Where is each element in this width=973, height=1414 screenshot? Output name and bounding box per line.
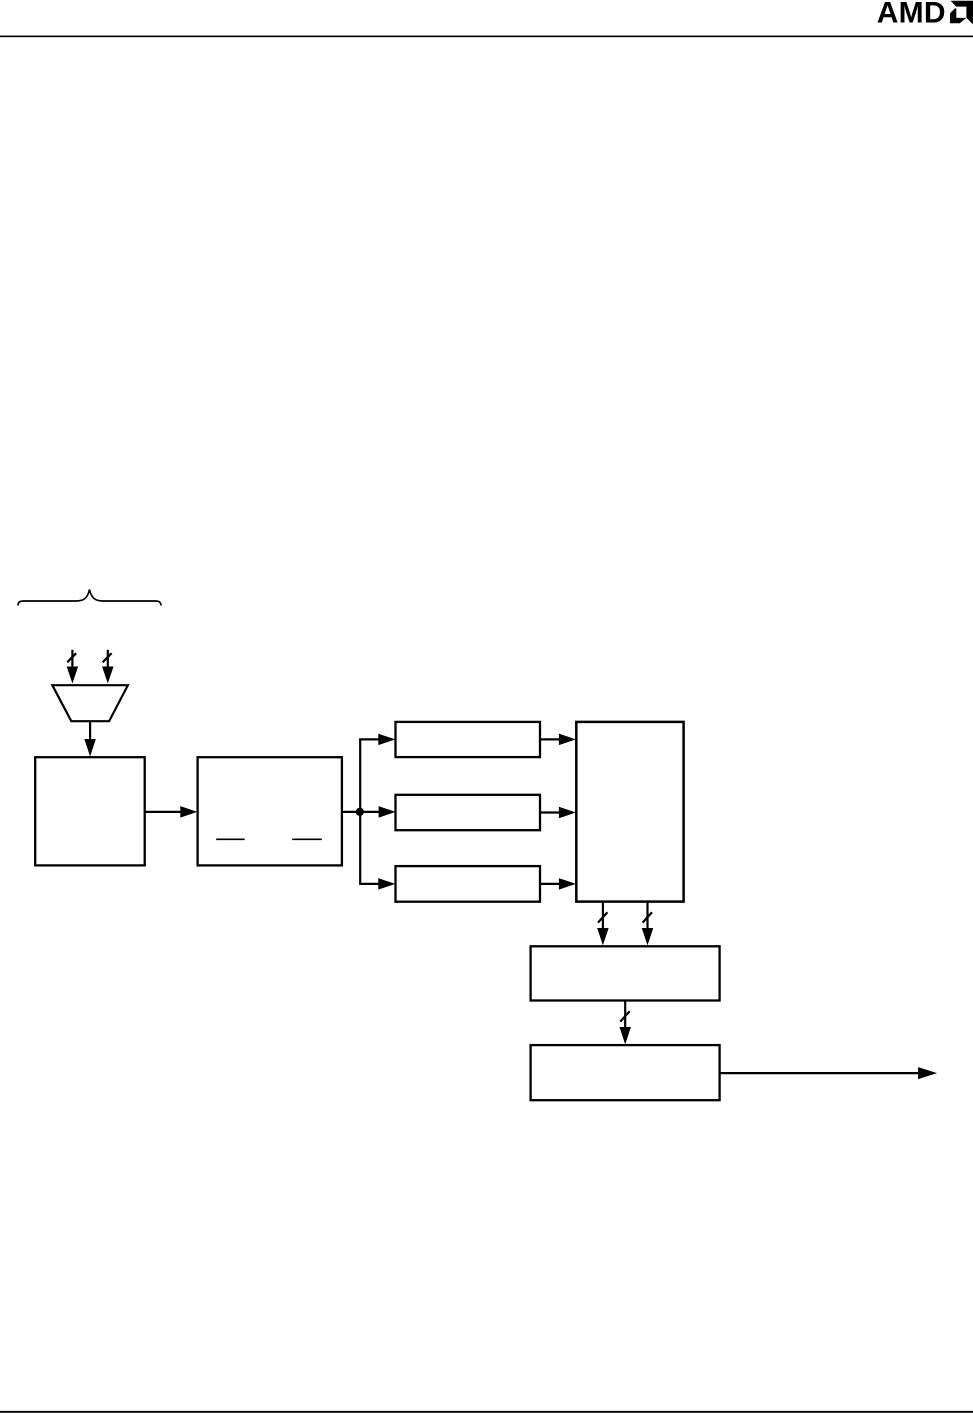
- bus width slash 2: [103, 653, 112, 662]
- block2: [198, 757, 342, 865]
- arrowhead into block2: [180, 806, 197, 818]
- wire block5 to big block: [540, 883, 561, 885]
- bus width slash C: [620, 1011, 629, 1021]
- branch wire to block3: [359, 738, 380, 740]
- svg-text:AMD: AMD: [877, 0, 946, 30]
- output arrowhead: [918, 1067, 937, 1079]
- arrowhead into block5: [378, 878, 395, 890]
- arrowhead into block6 B: [642, 928, 654, 945]
- big block: [576, 722, 683, 902]
- block5: [396, 866, 541, 902]
- brace over input buses: [18, 590, 161, 606]
- branch wire to block5: [359, 883, 380, 885]
- bus width slash B: [643, 912, 652, 922]
- header rule: [0, 36, 973, 38]
- output wire from block7: [720, 1072, 920, 1074]
- branch wire to block4: [360, 811, 380, 813]
- arrowhead into block7: [619, 1027, 631, 1044]
- wire block1 to block2: [145, 811, 182, 813]
- arrowhead into block1: [84, 739, 96, 757]
- input bus wire 1: [71, 650, 73, 669]
- block4: [396, 795, 541, 830]
- bus width slash 1: [67, 653, 76, 662]
- block1: [35, 757, 145, 865]
- block6: [531, 946, 720, 1000]
- arrowhead into mux 2: [102, 667, 114, 684]
- wire block3 to big block: [540, 738, 561, 740]
- arrowhead into mux 1: [67, 667, 79, 684]
- wire mux to block1: [89, 721, 91, 741]
- signal overline 2 in block2: [292, 838, 322, 840]
- bus width slash A: [598, 912, 607, 922]
- arrowhead big block middle: [559, 807, 576, 819]
- input bus wire 2: [107, 650, 109, 669]
- bus wire block6 to block7: [624, 1001, 626, 1030]
- block3: [396, 722, 541, 757]
- signal overline 1 in block2: [216, 838, 245, 840]
- AMD arrow symbol triangle: [950, 8, 966, 23]
- output bus wire A from big block: [602, 902, 604, 930]
- wire block4 to big block: [540, 811, 561, 813]
- arrowhead into block6 A: [597, 928, 609, 945]
- output bus wire B from big block: [646, 902, 648, 930]
- arrowhead into block4: [379, 806, 396, 818]
- AMD logotype text: [877, 0, 946, 30]
- block7: [531, 1045, 720, 1100]
- mux trapezoid: [52, 685, 128, 721]
- junction node: [356, 808, 364, 816]
- wire block2 to junction: [342, 811, 360, 813]
- AMD arrow symbol bracket: [951, 1, 973, 25]
- arrowhead big block top: [559, 734, 576, 746]
- branch wire vertical: [359, 739, 361, 884]
- arrowhead into block3: [378, 734, 395, 746]
- arrowhead big block bottom: [559, 878, 576, 890]
- footer rule: [0, 1411, 973, 1413]
